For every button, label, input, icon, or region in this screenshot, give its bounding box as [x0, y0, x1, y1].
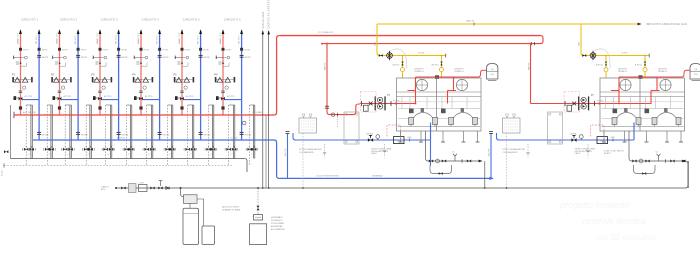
- svg-text:ANL/THI: ANL/THI: [527, 62, 530, 70]
- svg-text:AUTOMATICA: AUTOMATICA: [271, 228, 285, 231]
- svg-text:SY / ST AN.GYN: SY / ST AN.GYN: [318, 31, 333, 34]
- svg-text:CIRCUITO 4: CIRCUITO 4: [142, 17, 159, 21]
- softener resin tank: [183, 208, 199, 244]
- distribution circuit CIRCUITO 6 (supply/return risers, valves, pump P6, mixing valve): [214, 17, 258, 165]
- svg-text:CIRCUITO 1: CIRCUITO 1: [21, 17, 38, 21]
- group 1 feed riser: [327, 44, 360, 115]
- pump and filter station, boiler group 1: [299, 51, 424, 188]
- svg-text:CIRCUITO 6: CIRCUITO 6: [224, 17, 241, 21]
- svg-text:COL/TRI: COL/TRI: [230, 137, 238, 139]
- svg-text:P5: P5: [173, 73, 177, 77]
- return branch and station run, group 2: [487, 123, 634, 179]
- svg-text:SC/GE: SC/GE: [2, 170, 4, 176]
- group 2 feed riser: [530, 44, 532, 104]
- svg-text:GENERALE: GENERALE: [372, 175, 384, 178]
- svg-text:CIRCUITO 3: CIRCUITO 3: [101, 17, 118, 21]
- gas drop to group 1: [377, 24, 446, 56]
- pump and filter station, boiler group 2: [503, 51, 628, 188]
- svg-text:CONT.: CONT.: [139, 182, 145, 184]
- water feed line (carico acqua): [116, 187, 686, 189]
- svg-text:ACT/TRI: ACT/TRI: [117, 136, 125, 139]
- general return run: [279, 177, 493, 179]
- svg-text:ACQ.TEC.PRE: ACQ.TEC.PRE: [23, 111, 37, 114]
- pump line to boiler group 1: [360, 103, 416, 105]
- svg-text:GAS: GAS: [578, 41, 581, 46]
- valve: [150, 187, 154, 190]
- dosing drop: [257, 188, 259, 215]
- boiler 1 return stub: [430, 140, 432, 166]
- svg-text:POLIFOSFATI: POLIFOSFATI: [271, 222, 285, 225]
- expansion / drain dashed line: [4, 165, 232, 167]
- svg-text:CARICO VC APERTO: CARICO VC APERTO: [268, 0, 271, 28]
- svg-text:P6: P6: [214, 73, 218, 77]
- svg-text:centrale termica: centrale termica: [582, 216, 646, 226]
- svg-text:P2: P2: [51, 73, 55, 77]
- fill line rise to boiler drains: [681, 161, 688, 188]
- svg-text:P3: P3: [91, 73, 95, 77]
- collector base line: [11, 159, 248, 173]
- boiler group 1 (GRUPPO TERMICO x2): [391, 49, 498, 188]
- feed line valve: [121, 187, 125, 190]
- svg-text:ANL/THI: ANL/THI: [323, 62, 326, 70]
- svg-text:COLL.MAN: COLL.MAN: [252, 111, 262, 114]
- softener control head: [184, 195, 198, 204]
- return branch and station run, group 1: [284, 123, 431, 179]
- riser to heating loads (RISCALDAMENTO): [262, 31, 264, 188]
- svg-text:DOSAGGIO: DOSAGGIO: [271, 219, 283, 222]
- distribution circuit CIRCUITO 1 (supply/return risers, valves, pump P1, mixing valve): [12, 17, 56, 165]
- svg-text:P4: P4: [132, 73, 136, 77]
- svg-text:GAS / MT: GAS / MT: [466, 20, 475, 23]
- dosing pump: [254, 215, 263, 221]
- svg-text:GAS: GAS: [374, 41, 377, 46]
- riser open-vessel filling (CARICO VC APERTO): [268, 31, 270, 188]
- junction dots on feed line: [262, 187, 264, 189]
- distribution circuit CIRCUITO 5 (supply/return risers, valves, pump P5, mixing valve): [173, 17, 217, 165]
- svg-text:A RETE: A RETE: [604, 152, 611, 155]
- supply manifold riser to boiler room: [274, 36, 279, 115]
- boiler group 2 (GRUPPO TERMICO x2): [595, 49, 700, 188]
- check valve: [166, 187, 169, 190]
- svg-text:P1: P1: [12, 73, 16, 77]
- manifold drain valve: [4, 150, 8, 153]
- svg-text:rev. 02 esecutivo: rev. 02 esecutivo: [596, 233, 656, 242]
- vent: [159, 181, 163, 186]
- gauge on circuit 6 return: [242, 121, 246, 125]
- gas main (to IMPIANTO ADDUZIONE GAS): [377, 23, 638, 25]
- svg-text:SISTEMA DI: SISTEMA DI: [271, 216, 283, 219]
- svg-text:ALIMENTAZ.: ALIMENTAZ.: [271, 225, 284, 228]
- collector left boundary: [10, 105, 12, 159]
- general return end arrow: [489, 177, 492, 180]
- filter box: [129, 184, 137, 193]
- gas drop to group 2: [581, 24, 649, 56]
- distribution circuit CIRCUITO 2 (supply/return risers, valves, pump P2, mixing valve): [51, 17, 94, 165]
- svg-text:COLLETTORE RITORNO: COLLETTORE RITORNO: [316, 176, 339, 178]
- svg-text:CIRCUITO 5: CIRCUITO 5: [183, 17, 200, 21]
- supply manifold end cap: [13, 112, 15, 118]
- return manifold drop: [274, 140, 279, 178]
- svg-text:ACQ.: ACQ.: [101, 188, 106, 191]
- top run corner down to group 2 feed: [531, 36, 544, 44]
- distribution circuit CIRCUITO 4 (supply/return risers, valves, pump P4, mixing valve): [132, 17, 176, 165]
- supply manifold (collettore mandata): [14, 114, 274, 116]
- second supply run (ANL/THI): [322, 43, 531, 45]
- svg-text:IMPIANTO ADDUZIONE GAS: IMPIANTO ADDUZIONE GAS: [646, 22, 687, 26]
- dosing tank: [250, 224, 267, 245]
- water meter: [139, 185, 148, 192]
- distribution circuit CIRCUITO 3 (supply/return risers, valves, pump P3, mixing valve): [91, 17, 135, 165]
- svg-text:progetto impianto: progetto impianto: [559, 200, 630, 210]
- svg-text:CARICO: CARICO: [101, 185, 109, 188]
- brine tank: [202, 226, 215, 244]
- svg-text:SCAMBIO DI BASE: SCAMBIO DI BASE: [222, 208, 241, 211]
- svg-text:RISCALDAM.: RISCALDAM.: [262, 11, 265, 29]
- third middle riser: [265, 115, 267, 188]
- hot supply top run: [279, 35, 540, 37]
- svg-text:ADDOLCITORE A: ADDOLCITORE A: [222, 205, 239, 208]
- faint watermark: [559, 200, 656, 242]
- return manifold (collettore ritorno): [33, 139, 274, 141]
- softener feed loop: [181, 188, 184, 197]
- pump line to boiler group 2: [531, 103, 652, 105]
- svg-text:CIRCUITO 2: CIRCUITO 2: [60, 17, 77, 21]
